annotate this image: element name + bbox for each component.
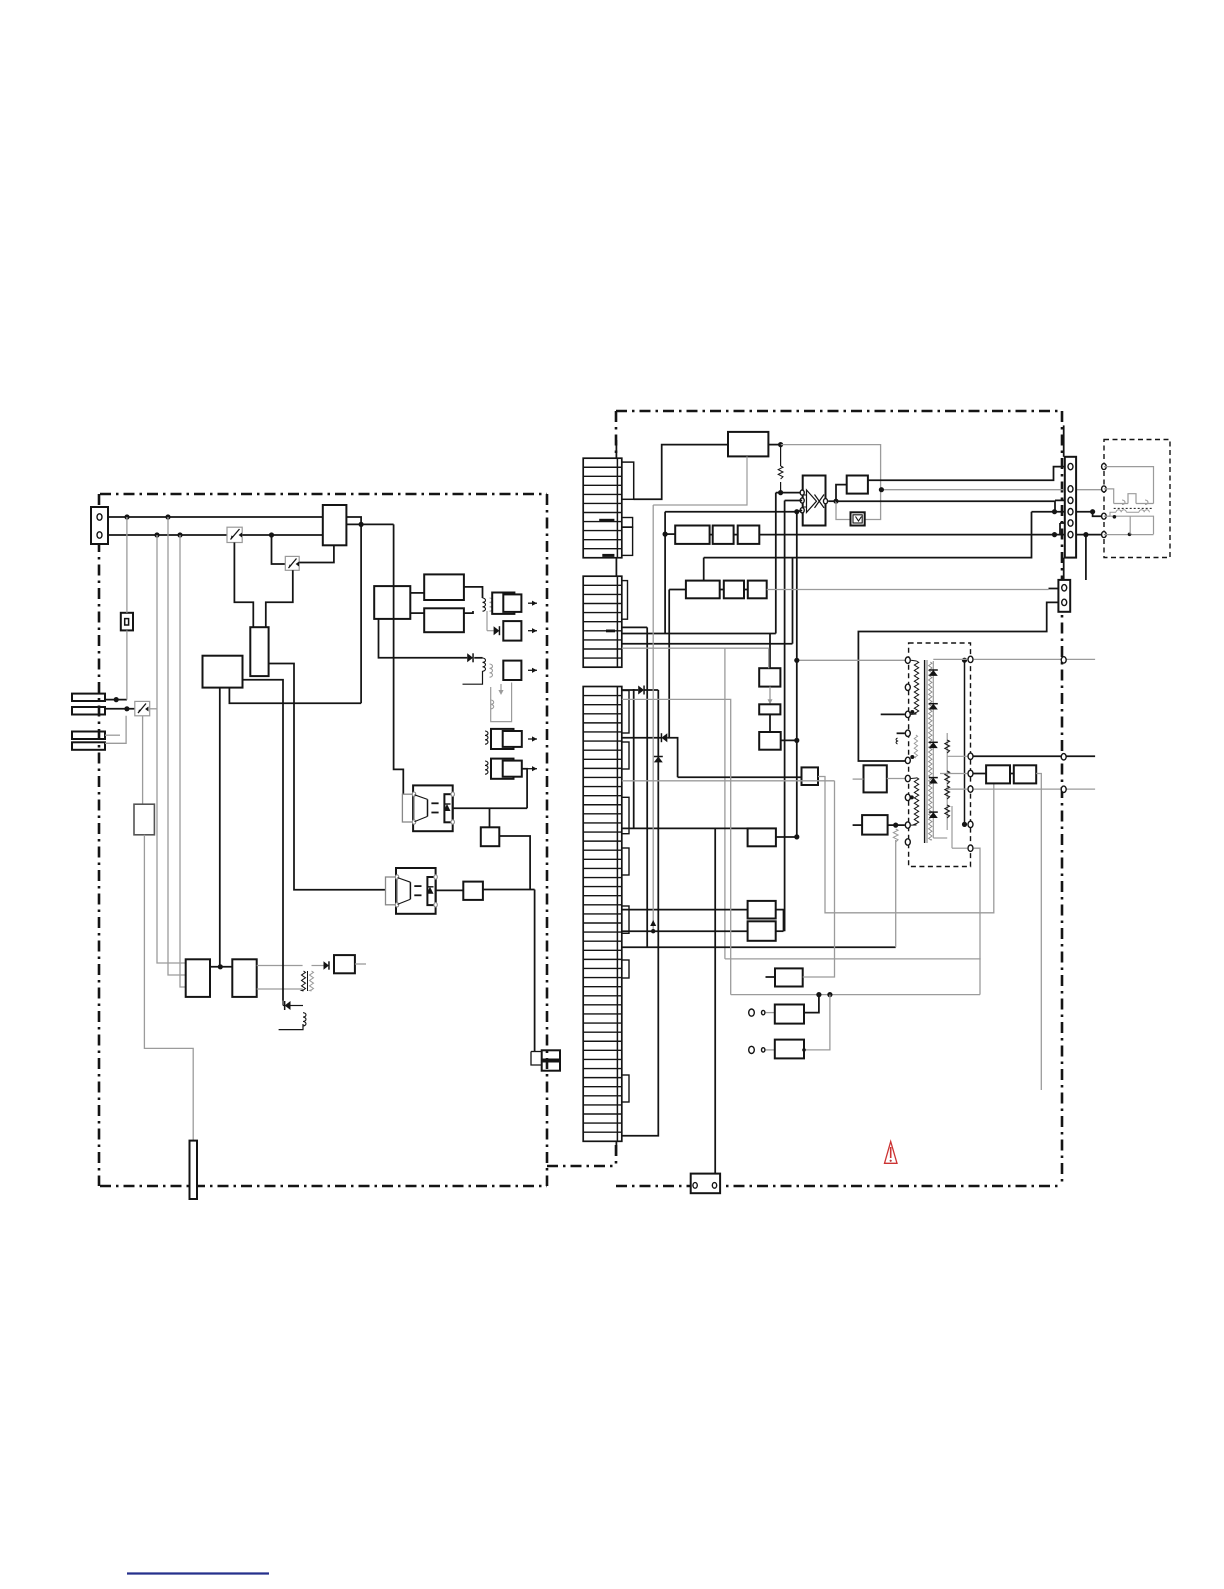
wires from CN2 rows to right: [622, 627, 647, 947]
PSU right pins: [968, 656, 973, 662]
gray wire RB2 down: [1036, 774, 1041, 1091]
PC102 led: [409, 882, 411, 899]
wire: K5 to PC101 output net: [522, 769, 527, 809]
coupled box pair K4 outer: [491, 729, 514, 749]
wire: S102 out up to B1: [299, 545, 334, 562]
bottom boxes with pins row1: [749, 1009, 755, 1016]
vertical link wire on border: [1063, 425, 1065, 456]
transformer primary winding: [914, 661, 918, 714]
inner black rail: [964, 660, 966, 824]
box B2 tall (rectifier): [250, 627, 268, 676]
box SQ0: [481, 827, 500, 846]
wire: B2 to opto PC102 input: [269, 664, 386, 890]
wire: BL2 to T402: [257, 965, 303, 967]
gray wire from pin 848 down-around: [974, 848, 981, 994]
row R2 boxes: [669, 590, 686, 738]
ladder connector segment CN2: [583, 576, 622, 667]
box R1a: [675, 526, 709, 544]
wire: PC102 output: [436, 889, 464, 891]
box B6: [424, 608, 464, 632]
transformer right-side winding: [929, 662, 932, 840]
gray hook under K3: [500, 684, 502, 691]
box BX3: [622, 909, 748, 911]
gray wire: VB down to fuse link: [144, 835, 193, 1141]
box TRB (regulator): [728, 432, 768, 457]
box SB6: [334, 955, 355, 973]
CN2 stub block: [622, 581, 628, 620]
ladder connector segment CN1: [583, 458, 622, 558]
vertical bus x=715.2 to CNB: [714, 828, 716, 1173]
riser input1 x=775.8: [775, 493, 777, 634]
gray long y=958.9: [725, 958, 981, 960]
wire: comparator output: [828, 500, 836, 502]
gray wire to pin2: [881, 489, 1104, 491]
box B1 (line filter): [323, 505, 347, 545]
box VB (varistor block): [134, 804, 154, 835]
fuse symbol FS1: [121, 613, 133, 631]
connector CN401: [1065, 457, 1076, 558]
wire MB3 right: [781, 739, 797, 741]
coupled box pair K4 inner: [503, 731, 522, 747]
CN2 polarity dash: [606, 630, 615, 633]
connector J101 (2-pin, left top): [91, 507, 108, 544]
CN1 stub rows7-8: [622, 518, 633, 528]
box BX2: [748, 828, 776, 846]
coil T401a: [483, 598, 486, 611]
diode D402: [486, 611, 488, 631]
opto-isolator PC101: [413, 785, 453, 831]
CN1 polarity dash: [599, 519, 614, 522]
opto-isolator PC102: [396, 868, 436, 914]
wire: tab to node: [105, 699, 127, 701]
gray vertical x=180: [180, 535, 186, 987]
resistor column: [946, 733, 948, 830]
coupled box pair K5 outer: [491, 759, 514, 779]
long wire y=947.2: [622, 946, 896, 948]
CN3 bottom tail: [615, 1141, 617, 1156]
vertical x=633.7: [633, 689, 635, 828]
gray vertical x=157: [157, 535, 186, 963]
box B4 (converter): [374, 586, 410, 619]
input3 bus x=796.8: [796, 512, 798, 837]
wire: S103 down: [142, 716, 144, 804]
box B401: [847, 476, 868, 494]
box PSU-left2: [862, 815, 888, 835]
gray riser from CN3 y=699.4: [622, 699, 731, 994]
wire: SQ2 out to bus: [483, 889, 535, 891]
PC101 led: [427, 799, 429, 816]
connector tabs left edge pair1: [72, 694, 105, 701]
zener reference box DZ: [851, 512, 865, 525]
gray drop from TRB bottom: [653, 456, 747, 505]
wire: PC101 output: [453, 807, 527, 809]
wire: B3 right link: [229, 688, 361, 704]
gray bus y=994.6: [731, 994, 980, 996]
wire: SQ0 out: [499, 836, 530, 890]
pin5 step: [1060, 523, 1065, 535]
box MB3: [769, 714, 771, 732]
wires from CN3 to boxes: [622, 827, 748, 829]
dashed box internals (AC inlet): [1104, 467, 1154, 504]
wire to comparator input1: [776, 492, 802, 494]
gray vertical x=127: [126, 517, 128, 613]
CN1 bottom link: [615, 558, 617, 576]
riser wires into tabs: [535, 1051, 542, 1053]
gray long wire y=660.3: [797, 659, 908, 661]
wire: down to box SQ0: [489, 808, 491, 827]
wire segment right y=511.7: [1032, 511, 1093, 513]
wire: CN1 to box TRB: [634, 445, 728, 500]
box B3 (control): [203, 656, 243, 688]
switch S102: [285, 556, 299, 570]
wire: S101 bottom to rect box: [234, 543, 253, 628]
wire BX2 right: [776, 836, 797, 838]
gray feedback loop: [781, 445, 881, 520]
coupled box pair K1 inner: [503, 594, 521, 612]
comparator U401: [803, 476, 826, 526]
black wire y=756.3: [974, 755, 1096, 757]
gray vertical x=168: [168, 517, 186, 975]
box BX4: [622, 930, 748, 932]
box (775,968): [766, 976, 776, 978]
boxes RB1 RB2: [974, 773, 987, 775]
winding connects: [911, 659, 917, 662]
switch S103: [135, 701, 150, 715]
box R2c: [748, 581, 767, 599]
transformer core: [924, 660, 926, 843]
box SQ2: [463, 882, 483, 900]
diode D6 row: [622, 737, 662, 739]
coupled box pair K5 inner: [503, 761, 522, 777]
drop into R2a: [703, 558, 705, 581]
wire: B4 to B6: [410, 612, 424, 614]
box R2a: [686, 581, 720, 599]
gray vertical x=895.7: [895, 840, 897, 947]
long wire y=511.7 to comparator input3: [665, 511, 797, 513]
wire: B5 to T401: [464, 587, 483, 598]
box PSU-left1: [864, 765, 887, 792]
ladder connector segment CN3: [583, 687, 622, 1142]
box MB2: [759, 704, 780, 714]
riser x=665.1: [664, 512, 666, 634]
bottom boxes with pins row2: [749, 1046, 755, 1053]
connector tabs left edge pair2: [72, 732, 105, 740]
diode D401: [467, 653, 473, 662]
diodes on CN3 rows: [622, 689, 638, 691]
wire: CN402 pin2 long route: [858, 602, 1058, 761]
gray wires from tabs pair2: [105, 734, 120, 736]
wire: B3 down bus: [219, 688, 221, 967]
wire R1c to CN401 pin6: [759, 534, 1104, 536]
wire: S103 right stub: [150, 708, 157, 710]
wire: pin1 rail y=517: [108, 516, 323, 518]
wire into PSU pin3: [881, 713, 905, 715]
gray wire pin1r to edge: [974, 658, 1096, 660]
wire: S102 bottom to rect box: [266, 570, 293, 627]
wire into PSU pin4: [897, 732, 905, 734]
long wire y=534.6 rowR1: [665, 533, 675, 535]
red warning triangle: [885, 1142, 898, 1164]
box B5: [424, 574, 464, 600]
transformer secondary winding: [914, 778, 918, 826]
box BX (bottom middle): [678, 776, 802, 778]
box BL2: [232, 959, 256, 997]
connector tabs right bottom of left board: [542, 1050, 560, 1059]
bus: down-left long rail y=557.6: [704, 512, 1032, 558]
CN3 stub blocks: [622, 691, 629, 734]
gray loop MB1 top: [622, 648, 769, 668]
wire: B4 bottom to diode D401: [379, 619, 468, 658]
wire: B6 to T401 bottom: [464, 611, 473, 613]
coupled box pair K1 outer: [492, 593, 514, 614]
box R1b: [713, 526, 734, 544]
small dashed box top right: [1104, 440, 1170, 558]
right dash-dot board boundary: [616, 410, 1062, 413]
wire: pin2 rail y=535: [108, 534, 227, 536]
gray loop BX-RB1: [818, 777, 994, 913]
wire: node down to S102: [272, 535, 286, 564]
box R2b: [724, 581, 744, 599]
rectifier diode column: [932, 661, 934, 838]
tee down to strip rail: [792, 558, 794, 644]
gray wire y=789.1: [974, 788, 1096, 790]
gray line y=780.8: [622, 780, 835, 782]
dashed box edge pins: [1102, 464, 1107, 470]
left dash-dot board boundary: [100, 493, 547, 496]
switch S101: [227, 527, 242, 542]
diode D403: [312, 965, 324, 967]
wire+coil after D401: [474, 657, 482, 659]
middle bottom dash-dot segment: [547, 1165, 616, 1168]
transformer T402: [302, 971, 306, 991]
box R1c: [738, 526, 760, 544]
gray arrow MB1 to MB2: [769, 687, 771, 705]
wire: down bus x=361: [360, 524, 362, 703]
CN1 stub block rows1-4: [622, 462, 634, 499]
wire: B3 right to x=283 bus: [243, 680, 284, 1001]
box BL1 (relay drive): [186, 959, 210, 997]
box K2: [503, 621, 521, 641]
wire: B401 to CN401 pin1: [868, 467, 1065, 481]
bottom connector CNB: [691, 1174, 720, 1194]
riser with arrow x=653: [652, 505, 654, 931]
gray wire R2c to connector CN402: [767, 589, 1049, 591]
fuse F101: [190, 1141, 198, 1199]
diode D404: [285, 1001, 291, 1010]
resistor R401: [780, 445, 782, 466]
CN1 stub rows8-11: [622, 527, 633, 555]
wire: BL1-BL2: [210, 966, 232, 968]
wire: tab to S103: [105, 708, 135, 710]
wire pin3 with step: [836, 500, 1065, 511]
CN1 top stub: [615, 440, 617, 458]
box K3: [503, 661, 521, 680]
dashed power-rectifier box: [909, 643, 971, 867]
vertical rail x=658.3 with up diode D7: [622, 690, 658, 1136]
connector CN402: [1058, 580, 1070, 612]
blue footer rule: [127, 1572, 269, 1574]
PSU left pins: [905, 657, 910, 663]
wire: B1 out node: [346, 523, 393, 525]
wire: B4 to B5: [410, 592, 424, 594]
wire: S101 to node: [242, 534, 323, 536]
wire: output to zener box: [836, 501, 851, 519]
box MB1: [759, 668, 780, 686]
verticals to comparator inputs: [785, 500, 803, 502]
wire: TRB output node: [768, 444, 780, 446]
psu internal joins: [933, 658, 967, 660]
wire: long down bus x=393.6: [394, 524, 404, 794]
coil under D404: [303, 1013, 306, 1026]
